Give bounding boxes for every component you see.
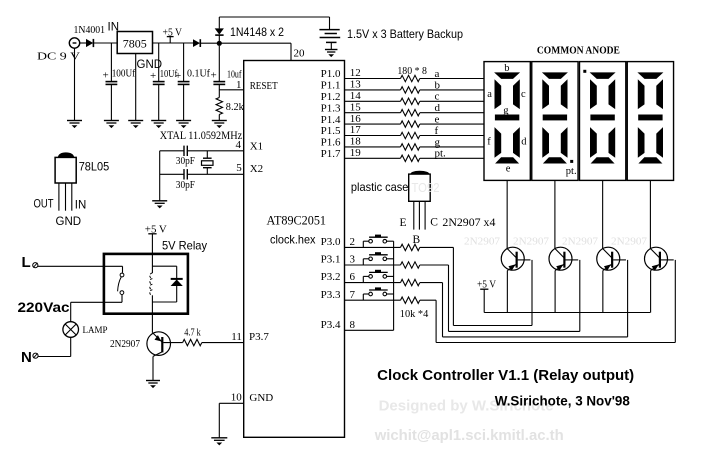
- svg-text:6: 6: [350, 271, 356, 283]
- svg-text:P1.6: P1.6: [321, 137, 341, 149]
- svg-text:IN: IN: [75, 200, 87, 212]
- resistor R12 10k: [401, 279, 420, 285]
- transistor Q2 2N2907: [549, 247, 578, 312]
- svg-text:10: 10: [231, 391, 243, 403]
- resistor R10 10k: [401, 244, 420, 250]
- resistor R2 4.7k: [183, 339, 202, 345]
- wire D2 to node VCC2: [200, 42, 219, 44]
- transistor Q3 2N2907: [597, 247, 626, 312]
- capacitor C6 30pF: [184, 169, 187, 179]
- wire display DS4 common to Q4 collector: [649, 180, 651, 248]
- svg-text:pt.: pt.: [566, 166, 577, 177]
- 7-segment display DS2: [532, 62, 578, 181]
- svg-text:1: 1: [236, 79, 242, 91]
- resistor R13 10k: [401, 297, 420, 303]
- resistor R9 180 ohm: [401, 155, 420, 161]
- wire resistor to display segment a: [420, 78, 484, 80]
- wire P3.2 to transistor Q3 base: [420, 260, 628, 337]
- capacitor C2 10Uf: [153, 43, 165, 121]
- svg-text:C: C: [430, 217, 438, 229]
- junction node VCC2: [217, 41, 222, 46]
- wire resistor to display segment g: [420, 146, 484, 148]
- wire R2 to P3.7: [202, 342, 244, 344]
- crystal Y1: [202, 151, 214, 175]
- svg-text:7: 7: [350, 289, 356, 301]
- wire C4 to RESET pin1: [219, 89, 243, 91]
- svg-text:16: 16: [350, 113, 362, 125]
- svg-text:10k *4: 10k *4: [400, 308, 429, 320]
- wire jack to D1: [80, 42, 86, 44]
- +5V tap (transistors): [480, 289, 488, 312]
- wire X2: [160, 173, 244, 175]
- wire display DS3 common to Q3 collector: [602, 180, 604, 248]
- relay K1 box: [104, 254, 188, 314]
- svg-text:15: 15: [350, 101, 362, 113]
- svg-text:COMMON ANODE: COMMON ANODE: [537, 45, 620, 57]
- wire 7805 out to D2: [153, 42, 194, 44]
- wire P1.6 to resistor: [345, 146, 401, 148]
- svg-text:b: b: [435, 79, 441, 91]
- svg-text:P3.1: P3.1: [321, 254, 341, 266]
- svg-text:20: 20: [294, 48, 306, 60]
- svg-text:g: g: [503, 105, 509, 116]
- svg-text:2N2907: 2N2907: [110, 339, 140, 350]
- svg-text:TO92: TO92: [412, 181, 440, 195]
- svg-text:LAMP: LAMP: [83, 326, 108, 336]
- svg-text:12: 12: [350, 67, 361, 79]
- transistor package TO-92 drawing: [409, 171, 431, 230]
- svg-text:clock.hex: clock.hex: [270, 233, 316, 247]
- ground (C1): [104, 121, 119, 129]
- wire xtal left leg: [159, 151, 161, 201]
- svg-text:XTAL 11.0592MHz: XTAL 11.0592MHz: [160, 130, 243, 142]
- svg-text:a: a: [435, 68, 440, 80]
- svg-text:14: 14: [350, 90, 362, 102]
- resistor R8 180 ohm: [401, 144, 420, 150]
- svg-text:Clock Controller V1.1 (Relay o: Clock Controller V1.1 (Relay output): [377, 368, 634, 384]
- wire resistor to display segment f: [420, 135, 484, 137]
- wire P1.5 to resistor: [345, 135, 401, 137]
- wire P1.2 to resistor: [345, 100, 401, 102]
- wire switch common bus: [393, 241, 395, 330]
- wire P3.3: [345, 299, 401, 301]
- svg-text:e: e: [435, 114, 440, 126]
- wire VCC2 to pin20: [219, 43, 291, 60]
- wire lamp to N: [38, 337, 70, 356]
- wire P3.1 to transistor Q2 base: [420, 260, 580, 332]
- svg-text:4.7 k: 4.7 k: [184, 327, 201, 338]
- svg-text:1.5V x 3 Battery Backup: 1.5V x 3 Battery Backup: [347, 27, 463, 41]
- resistor R3 180 ohm: [401, 87, 420, 93]
- svg-text:13: 13: [350, 79, 362, 91]
- ground (jack): [67, 121, 82, 129]
- wire D1 to 7805: [93, 42, 117, 44]
- svg-text:c: c: [435, 91, 440, 103]
- svg-text:P3.4: P3.4: [321, 319, 341, 331]
- transistor Q5 2N2907 (relay driver): [147, 332, 183, 381]
- svg-text:f: f: [487, 137, 491, 148]
- svg-text:P3.3: P3.3: [321, 289, 341, 301]
- svg-text:5: 5: [236, 162, 242, 174]
- transistor Q1 2N2907: [501, 247, 530, 312]
- ground (R1): [212, 121, 227, 129]
- svg-text:180 * 8: 180 * 8: [397, 65, 427, 77]
- wire resistor to display segment d: [420, 112, 484, 114]
- ground (C2): [151, 121, 166, 129]
- svg-text:17: 17: [350, 124, 362, 136]
- svg-text:OUT: OUT: [34, 199, 54, 211]
- wire P3.3 to transistor Q4 base: [420, 260, 676, 343]
- wire P3.1: [345, 264, 401, 266]
- 7-segment display DS1: [484, 62, 530, 181]
- svg-text:1N4148 x 2: 1N4148 x 2: [230, 25, 284, 39]
- svg-text:100Uf: 100Uf: [112, 68, 136, 80]
- svg-text:plastic case: plastic case: [351, 180, 409, 194]
- svg-text:30pF: 30pF: [176, 179, 195, 191]
- svg-text:220Vac: 220Vac: [18, 299, 70, 315]
- svg-text:IN: IN: [108, 22, 120, 34]
- wire display DS2 common to Q2 collector: [554, 180, 556, 248]
- svg-text:4: 4: [236, 139, 242, 151]
- svg-text:P1.0: P1.0: [321, 68, 341, 80]
- svg-text:g: g: [435, 136, 441, 148]
- svg-text:L: L: [22, 254, 31, 271]
- wire display DS1 common to Q1 collector: [506, 180, 508, 248]
- svg-text:b: b: [504, 63, 509, 74]
- svg-text:+: +: [211, 70, 217, 82]
- lamp LA1: [63, 322, 79, 338]
- svg-text:P3.2: P3.2: [321, 271, 341, 283]
- 7-segment display DS4: [627, 62, 673, 181]
- wire resistor to display segment pt.: [420, 157, 484, 159]
- svg-text:5V Relay: 5V Relay: [162, 239, 207, 253]
- wire 7805 GND lead: [135, 54, 137, 121]
- svg-text:d: d: [521, 137, 527, 148]
- +5V tap symbol: [167, 37, 174, 43]
- flyback diode D4: [152, 266, 182, 302]
- svg-text:11: 11: [231, 331, 242, 343]
- diode D3 1N4148 (battery): [215, 17, 224, 41]
- terminal L: [33, 263, 38, 268]
- svg-text:2: 2: [350, 236, 356, 248]
- svg-text:30pF: 30pF: [176, 155, 195, 167]
- relay contact switch: [118, 273, 124, 302]
- svg-text:P1.3: P1.3: [321, 102, 341, 114]
- svg-text:2N2907: 2N2907: [611, 236, 647, 248]
- wire L to relay contact: [38, 266, 123, 273]
- svg-text:8: 8: [350, 319, 356, 331]
- wire P1.7 to resistor: [345, 157, 401, 159]
- svg-text:78L05: 78L05: [79, 160, 110, 174]
- wire relay to Q5: [151, 314, 153, 333]
- resistor R11 10k: [401, 262, 420, 268]
- resistor R5 180 ohm: [401, 110, 420, 116]
- switch SW4: [363, 287, 393, 300]
- terminal N: [33, 353, 38, 358]
- op-amp U1 AT89C2051 chip body: [244, 61, 345, 438]
- svg-text:AT89C2051: AT89C2051: [267, 214, 327, 228]
- decimal dot DS2: [570, 160, 573, 163]
- wire +5V emitter rail: [484, 312, 650, 314]
- resistor R1 8.2k: [216, 98, 222, 115]
- svg-text:0.1Uf: 0.1Uf: [187, 68, 210, 80]
- capacitor C3 0.1Uf: [178, 43, 190, 121]
- wire contact to lamp: [71, 302, 122, 322]
- ground (chip): [211, 438, 227, 446]
- resistor R6 180 ohm: [401, 121, 420, 127]
- svg-text:DC 9 V: DC 9 V: [37, 51, 80, 63]
- decimal dot DS3: [583, 70, 586, 73]
- svg-text:pt.: pt.: [435, 148, 447, 160]
- wire GND pin to ground: [219, 403, 243, 438]
- svg-text:P1.1: P1.1: [321, 80, 341, 92]
- diode D2 1N4148: [193, 39, 200, 47]
- svg-text:P3.7: P3.7: [249, 331, 269, 343]
- svg-text:7805: 7805: [123, 37, 147, 51]
- resistor R2 180 ohm: [401, 75, 420, 81]
- wire P1.1 to resistor: [345, 89, 401, 91]
- switch SW3: [363, 270, 393, 283]
- svg-text:RESET: RESET: [250, 80, 278, 92]
- wire battery top rail: [219, 16, 329, 18]
- svg-text:3: 3: [350, 254, 356, 266]
- svg-text:d: d: [435, 102, 441, 114]
- svg-text:1N4001: 1N4001: [74, 24, 106, 36]
- wire P3.2: [345, 282, 401, 284]
- wire P1.0 to resistor: [345, 78, 401, 80]
- svg-text:+: +: [175, 70, 181, 82]
- svg-text:+: +: [103, 70, 109, 82]
- ground (C3): [176, 121, 191, 129]
- svg-text:P3.0: P3.0: [321, 236, 341, 248]
- svg-text:GND: GND: [56, 216, 82, 228]
- wire resistor to display segment b: [420, 89, 484, 91]
- capacitor C4 10uf (reset): [213, 46, 225, 98]
- resistor R7 180 ohm: [401, 132, 420, 138]
- svg-text:GND: GND: [249, 392, 273, 404]
- svg-text:e: e: [506, 164, 511, 175]
- svg-text:2N2907 x4: 2N2907 x4: [442, 217, 495, 229]
- svg-text:P1.2: P1.2: [321, 91, 341, 103]
- battery BT1 1.5V x 3: [319, 17, 340, 49]
- regulator U2 7805: [117, 32, 152, 54]
- wire jack ground stem: [74, 48, 76, 120]
- wire P1.3 to resistor: [345, 112, 401, 114]
- svg-text:P1.5: P1.5: [321, 125, 341, 137]
- svg-text:+: +: [150, 70, 156, 82]
- svg-text:2N2907: 2N2907: [513, 236, 549, 248]
- wire P1.4 to resistor: [345, 123, 401, 125]
- svg-text:19: 19: [350, 147, 362, 159]
- switch SW2: [363, 252, 393, 265]
- capacitor C5 30pF: [184, 146, 187, 156]
- ground (battery): [325, 50, 338, 58]
- svg-text:E: E: [400, 217, 407, 229]
- wire P3.4: [345, 329, 394, 331]
- svg-text:8.2k: 8.2k: [226, 101, 244, 113]
- wire P3.0: [345, 246, 401, 248]
- wire resistor to display segment e: [420, 123, 484, 125]
- +5V tap (relay): [148, 234, 156, 254]
- 7-segment display DS3: [580, 62, 626, 181]
- svg-text:18: 18: [350, 136, 362, 148]
- svg-text:a: a: [487, 89, 492, 100]
- svg-text:wichit@apl1.sci.kmitl.ac.th: wichit@apl1.sci.kmitl.ac.th: [374, 427, 564, 444]
- svg-text:2N2907: 2N2907: [562, 236, 598, 248]
- diode D1 1N4001: [86, 39, 93, 47]
- ground (7805): [128, 121, 143, 129]
- resistor R4 180 ohm: [401, 98, 420, 104]
- regulator 78L05 (TO-92 drawing): [55, 152, 76, 210]
- switch SW1: [363, 235, 393, 248]
- svg-text:P1.4: P1.4: [321, 114, 341, 126]
- svg-text:X2: X2: [250, 163, 263, 175]
- svg-text:c: c: [521, 89, 526, 100]
- wire R1 to ground: [218, 115, 220, 121]
- wire X1: [160, 150, 244, 152]
- svg-text:2N2907: 2N2907: [464, 236, 500, 248]
- relay coil: [150, 254, 153, 314]
- wire P3.0 to transistor Q1 base: [420, 247, 532, 325]
- ground (xtal): [152, 201, 167, 209]
- ground (Q5): [146, 381, 160, 389]
- svg-text:f: f: [435, 125, 439, 137]
- wire resistor to display segment c: [420, 100, 484, 102]
- svg-text:P1.7: P1.7: [321, 148, 341, 160]
- svg-text:B: B: [413, 234, 421, 246]
- svg-text:X1: X1: [250, 141, 263, 153]
- svg-text:W.Sirichote, 3 Nov'98: W.Sirichote, 3 Nov'98: [495, 394, 630, 409]
- transistor Q4 2N2907: [645, 247, 674, 312]
- svg-text:N: N: [21, 349, 32, 366]
- capacitor C1 100Uf: [106, 43, 118, 121]
- DC jack J1: [69, 38, 79, 48]
